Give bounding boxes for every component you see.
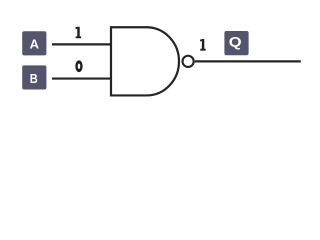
value label 0 (input B) <box>75 60 82 72</box>
svg-text:B: B <box>30 71 38 86</box>
inversion bubble <box>183 56 194 67</box>
nand gate U1 <box>111 27 179 95</box>
wire B <box>52 77 112 79</box>
value label 1 (output Q) <box>200 39 206 51</box>
input A <box>22 31 46 55</box>
wire A <box>52 43 112 45</box>
value label 1 (input A) <box>76 27 82 39</box>
output Q <box>224 31 248 55</box>
svg-text:A: A <box>30 36 40 51</box>
input B <box>22 65 46 89</box>
wire Q <box>195 60 301 62</box>
svg-text:Q: Q <box>229 35 242 51</box>
